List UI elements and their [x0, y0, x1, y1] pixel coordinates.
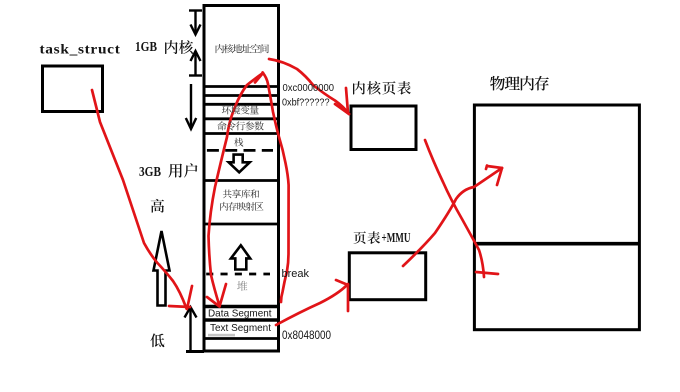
svg-text:Text Segment: Text Segment	[210, 322, 271, 334]
svg-text:1GB: 1GB	[135, 40, 157, 55]
svg-text:Data Segment: Data Segment	[208, 307, 272, 319]
svg-text:3GB: 3GB	[139, 165, 161, 180]
svg-text:task_struct: task_struct	[40, 43, 121, 58]
svg-text:+MMU: +MMU	[382, 230, 411, 245]
svg-text:0xbf??????: 0xbf??????	[282, 97, 330, 109]
svg-text:0x8048000: 0x8048000	[282, 330, 331, 342]
svg-text:0xc0000000: 0xc0000000	[283, 82, 335, 94]
svg-text:break: break	[282, 268, 310, 280]
